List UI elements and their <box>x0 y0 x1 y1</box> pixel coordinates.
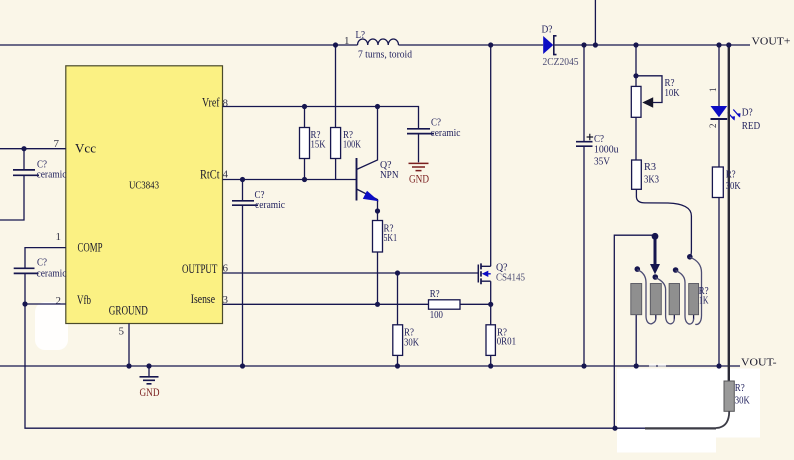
potentiometer R5 wiper path <box>636 76 662 103</box>
capacitor C4 1000u plates <box>576 142 593 147</box>
svg-text:Vref: Vref <box>202 95 220 109</box>
wire Isense pin3 <box>223 303 491 305</box>
mosfet Q2 body arrow <box>488 273 491 275</box>
wire LED cathode to R7 <box>718 120 720 168</box>
resistor R3a 5K1 body <box>373 221 383 253</box>
wire GROUND pin5 <box>128 324 130 367</box>
svg-text:10K: 10K <box>665 87 680 99</box>
selector element 1 body <box>631 284 642 315</box>
capacitor C2 bottom lead <box>24 274 26 304</box>
svg-text:1: 1 <box>708 88 718 93</box>
svg-text:100K: 100K <box>343 138 361 150</box>
svg-text:2CZ2045: 2CZ2045 <box>543 56 579 68</box>
diode D1 triangle <box>543 36 553 54</box>
wire OUTPUT to R4 30K <box>397 273 399 366</box>
selector big dot <box>652 233 659 240</box>
svg-text:L?: L? <box>356 29 366 41</box>
node vref collector <box>375 104 380 109</box>
wire RtCt pin4 <box>223 179 357 181</box>
resistor R1 15K leads <box>304 107 306 180</box>
svg-text:D?: D? <box>542 23 553 35</box>
node vout- led chain <box>716 363 721 368</box>
selector curve 4 <box>690 257 702 324</box>
node thick top <box>726 42 731 47</box>
selector dot b <box>653 274 659 280</box>
node bottom selector <box>612 426 617 431</box>
svg-text:Isense: Isense <box>191 292 216 306</box>
wire selector bracket <box>614 235 652 428</box>
selector curve 3 <box>676 271 694 325</box>
wire bottom thick segment <box>645 427 716 429</box>
selector element 3 body <box>669 284 679 315</box>
whiteout patch bottom middle <box>617 369 716 453</box>
svg-text:100: 100 <box>430 309 444 321</box>
resistor R8 0R01 leads <box>490 304 492 366</box>
capacitor C2 plates <box>14 268 39 273</box>
ground symbol GND right <box>409 163 429 170</box>
ground bus <box>0 365 740 367</box>
svg-text:R?: R? <box>735 382 745 394</box>
inductor L1 humps <box>358 39 399 45</box>
node vcc cap <box>21 146 26 151</box>
node gnd c3 <box>240 363 245 368</box>
svg-text:RED: RED <box>742 120 761 132</box>
selector curve 1 <box>637 270 656 324</box>
resistor R8 0R01 body <box>486 325 495 356</box>
transistor Q1 collector <box>357 107 378 170</box>
resistor R7 30K upper body <box>712 167 723 198</box>
selector dot c <box>673 267 679 273</box>
mosfet Q2 drain lead <box>481 45 491 266</box>
wire Vfb pin2 <box>25 303 66 305</box>
svg-text:RtCt: RtCt <box>200 167 220 181</box>
svg-text:3K3: 3K3 <box>644 173 659 185</box>
transistor Q1 emitter <box>357 189 378 212</box>
selector curve 2 <box>655 278 674 324</box>
capacitor C5 plates <box>407 129 434 134</box>
svg-text:GND: GND <box>409 173 429 185</box>
transistor Q1 base bar <box>356 158 358 201</box>
node cap top <box>581 42 586 47</box>
svg-text:ceramic: ceramic <box>431 127 461 139</box>
node drain top <box>488 42 493 47</box>
wire top rail left <box>0 44 358 46</box>
wire LED anode <box>718 45 720 106</box>
node gnd r30k <box>395 363 400 368</box>
svg-text:5K1: 5K1 <box>384 232 398 244</box>
svg-text:R?: R? <box>430 288 440 300</box>
node output r30k <box>395 270 400 275</box>
node gnd r0r01 <box>488 363 493 368</box>
svg-text:VOUT+: VOUT+ <box>752 35 791 47</box>
diode D1 cathode bar <box>554 36 557 55</box>
node vfb cap <box>22 301 27 306</box>
led D2 triangle <box>711 106 728 117</box>
node emitter <box>375 208 380 213</box>
node top 1 <box>333 42 338 47</box>
wire COMP pin1 <box>25 248 66 268</box>
svg-text:1K: 1K <box>699 295 709 307</box>
capacitor C1 plates <box>13 170 39 175</box>
erase marks on bus <box>649 364 656 367</box>
svg-text:30K: 30K <box>404 336 419 348</box>
svg-text:CS4145: CS4145 <box>496 271 525 283</box>
svg-text:5: 5 <box>119 326 125 338</box>
capacitor C1 top lead <box>23 149 25 170</box>
wire R3 to selector <box>636 189 691 256</box>
svg-text:2: 2 <box>708 124 718 129</box>
svg-text:COMP: COMP <box>78 240 103 254</box>
selector element 4 body <box>689 284 699 315</box>
svg-text:8: 8 <box>223 98 229 110</box>
node rtct r15k <box>302 177 307 182</box>
node rtct cap <box>240 177 245 182</box>
ground symbol GND left <box>140 377 159 384</box>
wire node1 to R100K <box>335 45 337 128</box>
mosfet Q2 gate bar <box>477 265 479 283</box>
svg-text:GROUND: GROUND <box>109 304 148 318</box>
node gnd sym <box>146 363 151 368</box>
node entry top <box>593 42 598 47</box>
svg-text:GND: GND <box>140 387 160 399</box>
wire thick VOUT+ down right <box>728 45 730 381</box>
capacitor C4 plus sign <box>587 134 594 141</box>
resistor R2 100K bottom lead <box>335 159 337 180</box>
capacitor C3 plates <box>232 201 258 205</box>
node led top <box>716 42 721 47</box>
resistor R3a 5K1 leads <box>377 211 379 304</box>
svg-text:R3: R3 <box>644 161 656 173</box>
potentiometer R5 wiper arrow <box>642 97 653 107</box>
node source r100 <box>488 302 493 307</box>
resistor R2 100K body <box>331 128 341 159</box>
selector arrow <box>654 238 657 265</box>
node gnd sel1 <box>634 363 639 368</box>
svg-text:30K: 30K <box>726 180 741 192</box>
svg-text:ceramic: ceramic <box>37 168 67 180</box>
wire top entry <box>594 0 596 45</box>
node gnd c1000 <box>581 363 586 368</box>
node isense <box>375 302 380 307</box>
transistor Q1 emitter arrow <box>363 191 379 201</box>
resistor R4 30K body <box>393 325 403 356</box>
node pot top <box>633 42 638 47</box>
svg-text:Vfb: Vfb <box>77 293 91 307</box>
wire Vref pin8 <box>223 107 419 129</box>
capacitor C3 RtCt lead <box>242 180 244 367</box>
svg-text:D?: D? <box>742 106 753 118</box>
wire Vcc pin7 <box>0 148 66 150</box>
svg-text:1000u: 1000u <box>594 143 619 155</box>
wire VOUT+ branch to pot <box>635 45 637 86</box>
potentiometer R5 10K body <box>631 86 641 117</box>
node pot wiper <box>633 73 638 78</box>
wire R10 to bottom <box>716 411 729 428</box>
svg-text:0R01: 0R01 <box>497 335 516 347</box>
resistor R6 100 body <box>429 300 461 309</box>
wire top rail mid <box>399 44 544 46</box>
svg-text:OUTPUT: OUTPUT <box>182 262 218 276</box>
svg-text:7 turns, toroid: 7 turns, toroid <box>358 48 412 60</box>
led D2 light arrows <box>728 110 740 120</box>
mosfet Q2 source lead <box>481 281 491 304</box>
IC U1 UC3843 body <box>66 66 223 324</box>
wire OUTPUT pin6 <box>223 272 479 274</box>
selector element leads <box>636 315 693 366</box>
svg-text:VOUT-: VOUT- <box>741 356 777 368</box>
svg-text:UC3843: UC3843 <box>129 180 159 192</box>
selector element 2 body <box>650 284 661 315</box>
svg-text:Vcc: Vcc <box>75 142 96 156</box>
svg-text:4: 4 <box>223 169 229 181</box>
resistor R9 3K3 body <box>632 160 642 189</box>
led D2 cathode bar <box>711 118 728 120</box>
svg-text:1: 1 <box>56 231 62 243</box>
wire pot to R3 <box>635 117 637 160</box>
selector dot d <box>687 254 693 260</box>
node vref r15k <box>302 104 307 109</box>
svg-text:NPN: NPN <box>380 169 399 181</box>
selector dot a <box>635 266 641 272</box>
svg-text:15K: 15K <box>311 138 326 150</box>
capacitor C1 bottom lead <box>0 176 24 220</box>
wire R7 to VOUT- bus <box>718 198 720 367</box>
capacitor C4 1000u leads <box>583 45 585 366</box>
svg-text:35V: 35V <box>594 155 610 167</box>
svg-text:ceramic: ceramic <box>255 199 285 211</box>
node gnd pin5 <box>126 363 131 368</box>
svg-text:1: 1 <box>344 35 350 47</box>
whiteout patch bottom right <box>714 369 760 438</box>
svg-text:30K: 30K <box>735 394 750 406</box>
wire feedback bottom left <box>25 304 646 428</box>
resistor R1 15K body <box>300 128 310 159</box>
ground GND lead left <box>148 366 150 376</box>
wire top rail right <box>555 44 750 46</box>
mosfet Q2 channel segments <box>480 263 482 284</box>
svg-text:ceramic: ceramic <box>37 267 67 279</box>
svg-text:R?: R? <box>726 168 736 180</box>
svg-text:2: 2 <box>56 295 62 307</box>
whiteout blob left <box>35 302 68 350</box>
resistor R10 30K gray body <box>724 381 734 411</box>
wire Vref to C5 gnd <box>418 134 420 163</box>
